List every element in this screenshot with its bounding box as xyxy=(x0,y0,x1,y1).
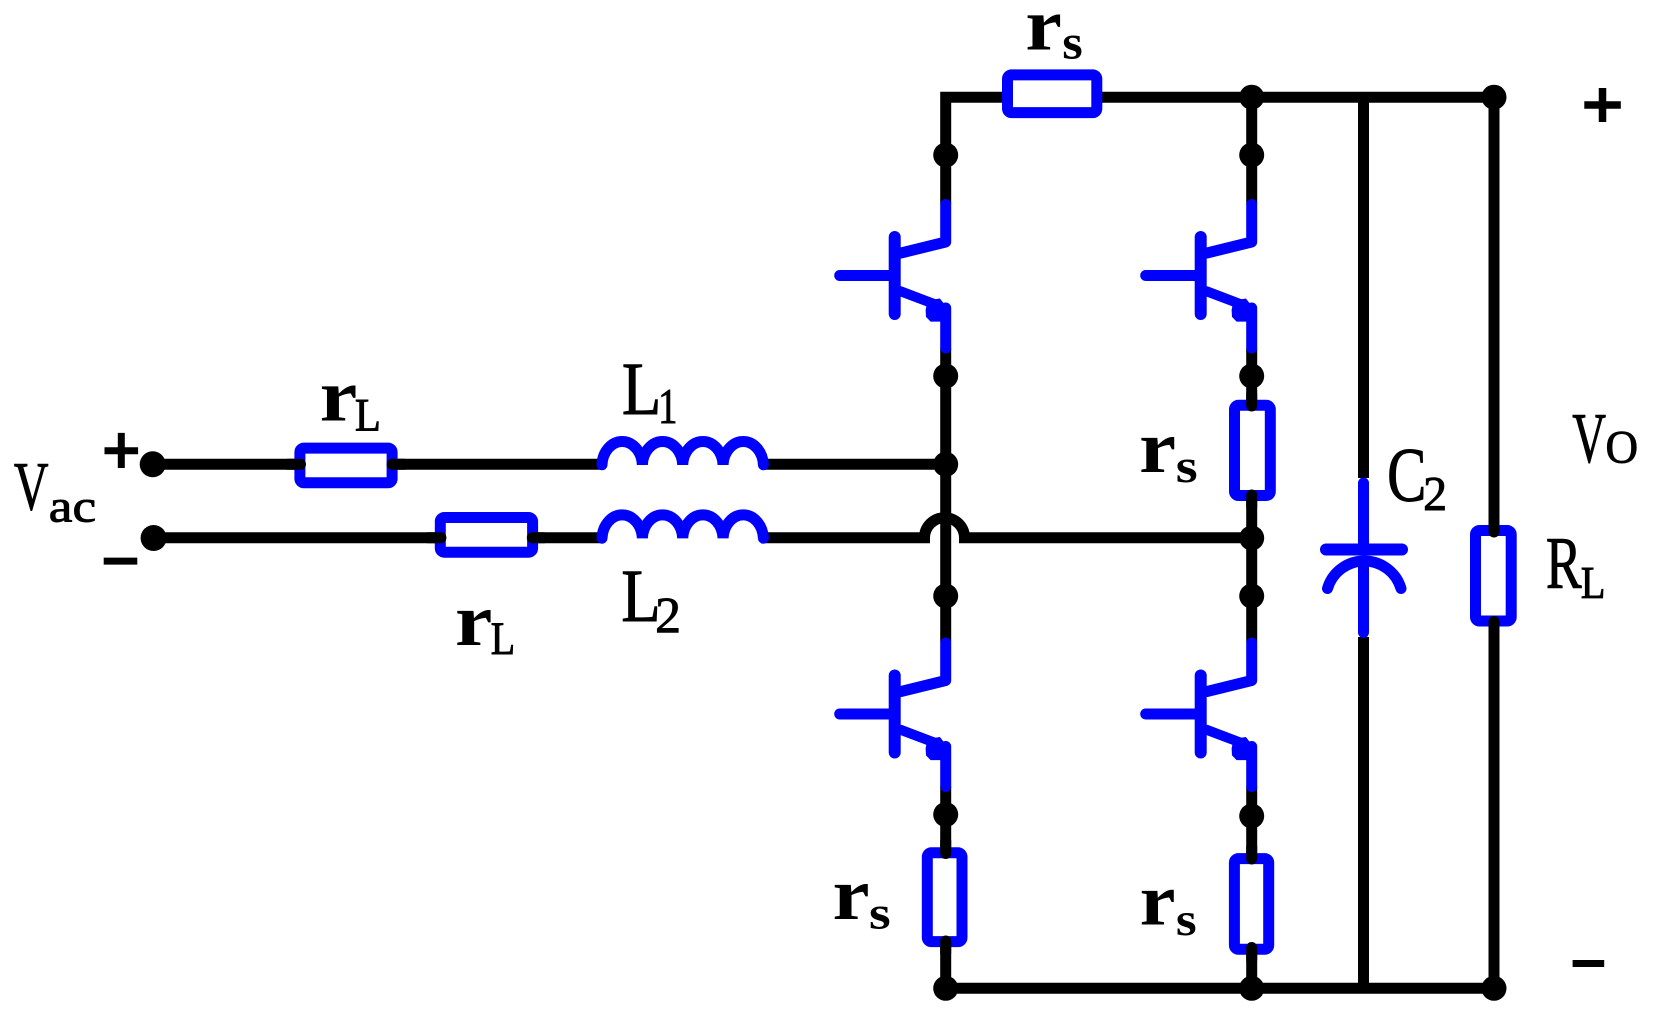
svg-text:r: r xyxy=(1025,0,1062,67)
wire stub into rs upper right top xyxy=(1246,394,1257,406)
svg-text:r: r xyxy=(455,580,492,662)
minus sign output xyxy=(1573,960,1605,967)
wire stub into rL bottom right xyxy=(532,532,544,543)
wire L2 to node B with hop over left leg, to right leg xyxy=(761,518,1251,538)
node bottom rail left xyxy=(933,976,958,1001)
svg-text:C: C xyxy=(1387,432,1426,518)
wire stub into rL bottom left xyxy=(428,532,441,543)
label rs lower right xyxy=(1140,860,1197,947)
label rs lower left xyxy=(833,854,891,940)
node output plus corner xyxy=(1482,85,1507,110)
node right Q2 emitter xyxy=(1239,364,1264,389)
wire stub into rL top left xyxy=(288,459,301,470)
label rL top xyxy=(320,356,381,442)
node Vac+ terminal xyxy=(140,451,166,477)
resistor rs top xyxy=(1008,75,1097,113)
node right above Q4 xyxy=(1239,584,1264,609)
svg-text:2: 2 xyxy=(1423,468,1447,521)
minus sign input xyxy=(104,558,138,565)
resistor rs lower left xyxy=(927,853,962,942)
wire input top from Vac+ to L1 xyxy=(153,459,602,470)
inductor L1 xyxy=(602,442,763,465)
node left Q3 emitter xyxy=(933,802,958,827)
node left above Q3 xyxy=(933,584,958,609)
label C2 xyxy=(1387,432,1447,521)
label L2 xyxy=(621,555,681,644)
wire top rail with left leg and right rail upper xyxy=(946,97,1494,525)
svg-text:R: R xyxy=(1546,523,1582,605)
svg-text:r: r xyxy=(833,854,870,936)
label rL bottom xyxy=(455,580,515,665)
resistor rs lower right xyxy=(1234,859,1268,950)
svg-text:2: 2 xyxy=(655,587,681,643)
wire right emitter to rs xyxy=(1246,348,1257,406)
svg-text:L: L xyxy=(355,390,381,442)
node Vac- terminal xyxy=(141,525,167,551)
wire C2 top lead xyxy=(1358,97,1369,478)
plus sign input xyxy=(105,433,139,468)
svg-text:L: L xyxy=(491,613,515,665)
wire stub into rL top right xyxy=(392,459,404,470)
svg-text:L: L xyxy=(1581,557,1606,608)
wire stub into rs lower right bottom xyxy=(1246,948,1257,961)
svg-text:1: 1 xyxy=(658,378,677,434)
svg-text:r: r xyxy=(1140,860,1176,941)
svg-text:s: s xyxy=(1176,440,1198,493)
plus sign output xyxy=(1584,88,1621,122)
svg-text:s: s xyxy=(1062,14,1083,69)
resistor RL load xyxy=(1476,531,1512,622)
label Vac xyxy=(14,449,96,532)
node B middle wire junction xyxy=(1239,526,1264,551)
wire right below lower rs xyxy=(1246,950,1257,988)
svg-text:V: V xyxy=(14,449,49,525)
wire right leg top xyxy=(1246,97,1257,204)
wire stub into rs upper right bottom xyxy=(1246,495,1257,507)
wire stub into RL top xyxy=(1489,516,1500,532)
wire stub into rs lower left bottom xyxy=(940,941,951,953)
label RL xyxy=(1546,523,1606,608)
label L1 xyxy=(622,348,677,434)
svg-text:s: s xyxy=(1176,894,1197,946)
capacitor C2 xyxy=(1326,483,1402,633)
label VO xyxy=(1572,400,1638,478)
resistor rL top xyxy=(300,448,392,483)
node left Q1 emitter xyxy=(933,364,958,389)
inductor L2 xyxy=(602,515,763,538)
transistor Q3 lower left xyxy=(840,643,949,787)
wire stub into rs lower left top xyxy=(940,841,951,854)
node bottom rail middle xyxy=(1239,976,1264,1001)
label rs middle right xyxy=(1139,407,1198,493)
label rs top xyxy=(1025,0,1082,69)
node right leg upper xyxy=(1239,143,1264,168)
wire input bottom from Vac- to L2 xyxy=(154,532,602,543)
wire stub into RL bottom xyxy=(1489,622,1500,637)
node output minus corner xyxy=(1482,976,1507,1001)
node right Q4 emitter xyxy=(1239,804,1264,829)
wire Q4 emitter to rs xyxy=(1246,786,1257,859)
transistor Q2 upper right xyxy=(1146,205,1255,349)
svg-text:O: O xyxy=(1606,423,1639,474)
svg-text:s: s xyxy=(869,889,891,940)
svg-text:r: r xyxy=(1139,407,1176,489)
svg-text:ac: ac xyxy=(49,482,96,532)
wire stub into rs lower right top xyxy=(1246,847,1257,859)
wire C2 bottom lead xyxy=(1358,637,1369,988)
svg-text:L: L xyxy=(622,348,662,431)
transistor Q4 lower right xyxy=(1146,643,1255,787)
wire right rail lower and bottom rail xyxy=(946,627,1494,989)
wire left column middle xyxy=(940,348,951,642)
node A L1 junction xyxy=(933,452,958,477)
node left leg upper xyxy=(933,143,958,168)
wire right rs to Q4 xyxy=(1246,500,1257,642)
transistor Q1 upper left xyxy=(840,205,949,349)
wire left lower emitter to rs xyxy=(940,786,951,853)
resistor rs upper right xyxy=(1235,405,1271,495)
svg-text:V: V xyxy=(1572,400,1606,478)
wire L1 to node A xyxy=(761,459,951,470)
svg-text:r: r xyxy=(320,356,358,438)
resistor rL bottom xyxy=(440,518,532,553)
node top rail right leg xyxy=(1239,85,1264,110)
